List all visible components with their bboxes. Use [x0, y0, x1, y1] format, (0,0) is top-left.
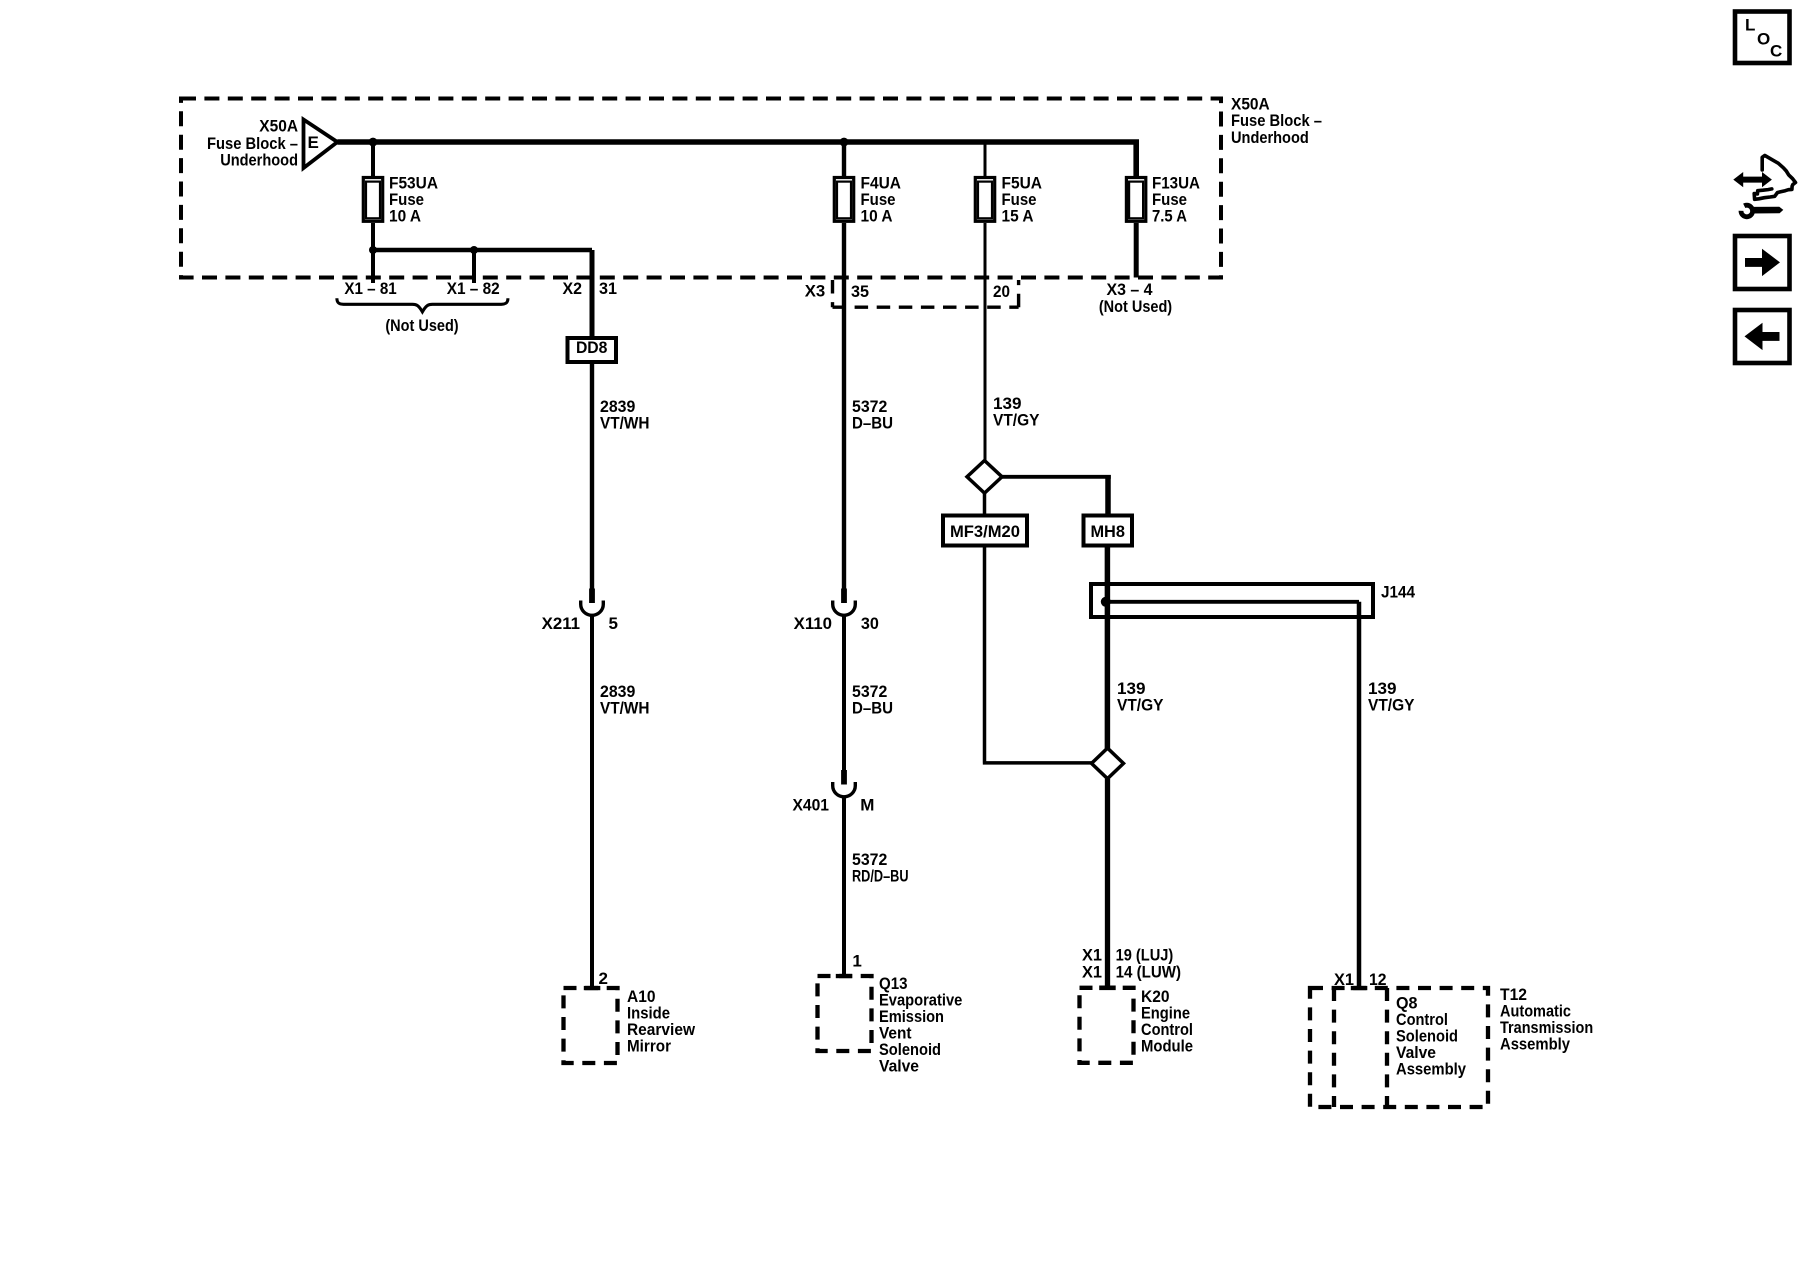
splice pack J144 [1091, 583, 1415, 618]
svg-text:Assembly: Assembly [1396, 1060, 1466, 1079]
svg-text:VT/WH: VT/WH [600, 414, 650, 433]
wire X110 to X401 [842, 615, 846, 770]
label X50A Fuse Block Underhood (at triangle) [207, 117, 298, 170]
wire MF3/M20 down and right to diamond 2 [983, 546, 1092, 763]
svg-text:Underhood: Underhood [1231, 128, 1309, 147]
wire stub pin X1-81 [371, 250, 375, 283]
J144 internal bus wire [1107, 600, 1360, 604]
diagnostic icon: wrench [1732, 197, 1784, 217]
fuse F53UA 10A [363, 173, 438, 225]
wire label 5372 D-BU (mid) [852, 682, 893, 718]
wire MH8 through J144 to diamond 2 [1105, 546, 1111, 749]
LOC hotspot box [1735, 12, 1790, 64]
svg-text:5: 5 [609, 614, 618, 633]
svg-text:7.5 A: 7.5 A [1152, 206, 1187, 225]
inline connector X110 pin 30 [794, 589, 879, 634]
terminal E triangle [304, 120, 338, 169]
terminal tick at A10 [584, 986, 601, 990]
pin labels X1 19 (LUJ) / X1 14 (LUW) [1082, 945, 1181, 981]
svg-text:10 A: 10 A [861, 206, 893, 225]
pin label X1 12 [1334, 970, 1387, 989]
component A10 Inside Rearview Mirror (dashed) [564, 987, 696, 1063]
label T12 Automatic Transmission Assembly [1500, 985, 1593, 1054]
svg-text:10 A: 10 A [389, 206, 421, 225]
wire fuse F4UA to X110 [842, 223, 846, 589]
svg-text:14 (LUW): 14 (LUW) [1116, 963, 1181, 982]
pin labels X3 35 20 [805, 281, 1010, 301]
splice DD8 [568, 338, 617, 362]
pin label X1-81 [344, 279, 396, 298]
wire label 139 VT/GY (left) [1117, 679, 1164, 715]
svg-text:VT/GY: VT/GY [993, 411, 1040, 430]
svg-text:Mirror: Mirror [627, 1037, 671, 1056]
svg-text:Underhood: Underhood [220, 151, 298, 170]
wire diamond to MH8 corner [1002, 475, 1111, 516]
svg-text:MF3/M20: MF3/M20 [950, 522, 1020, 541]
svg-text:L: L [1745, 16, 1755, 35]
brace (Not Used) [337, 298, 508, 335]
diagnostic icon: double arrow [1733, 172, 1772, 187]
svg-text:X1: X1 [1082, 945, 1102, 964]
wire diamond 2 to K20 [1105, 779, 1110, 988]
svg-text:D–BU: D–BU [852, 699, 893, 718]
wire X401 to Q13 [842, 797, 846, 976]
inline connector X401 pin M [793, 770, 875, 815]
wire bus to fuse F4UA [842, 142, 846, 176]
wire label 139 VT/GY [993, 394, 1040, 430]
splice diamond node 2 [1092, 748, 1124, 779]
bus wire from terminal E [337, 142, 1136, 176]
svg-text:RD/D–BU: RD/D–BU [852, 867, 909, 886]
label X50A Fuse Block Underhood (right of box) [1231, 95, 1322, 147]
wire DD8 to X211 [590, 362, 594, 589]
harness branch MH8 [1084, 516, 1133, 546]
svg-text:X211: X211 [542, 614, 580, 633]
fuse F13UA 7.5A [1126, 173, 1200, 225]
splice diamond node 1 [967, 461, 1002, 494]
svg-text:C: C [1770, 42, 1782, 61]
junction node X1-81 [369, 246, 377, 254]
wire fuse F5UA to splice diamond [984, 223, 987, 461]
wire label 5372 D-BU [852, 397, 893, 433]
svg-text:Assembly: Assembly [1500, 1035, 1570, 1054]
component Q8 inner dashed line [1385, 988, 1389, 1107]
svg-text:Module: Module [1141, 1037, 1193, 1056]
pin label X3-4 (Not Used) [1099, 280, 1172, 316]
wire J144 to T12 [1357, 602, 1362, 988]
pin label X2 31 [563, 279, 618, 298]
component K20 Engine Control Module (dashed) [1080, 987, 1194, 1063]
svg-text:E: E [308, 133, 319, 152]
svg-text:31: 31 [599, 279, 617, 298]
wire label 139 VT/GY (right) [1368, 679, 1415, 715]
svg-text:O: O [1757, 30, 1770, 49]
svg-text:VT/GY: VT/GY [1117, 696, 1164, 715]
fuse F4UA 10A [834, 173, 901, 225]
svg-text:DD8: DD8 [576, 338, 608, 357]
junction node at F53UA [369, 138, 378, 147]
svg-text:19 (LUJ): 19 (LUJ) [1116, 945, 1174, 964]
svg-text:X2: X2 [563, 279, 583, 298]
wire X2-31 to DD8 [590, 250, 595, 338]
diagnostic icon: sketched arrow outline [1754, 155, 1795, 199]
wire fuse F53UA to branch [371, 223, 375, 250]
svg-text:X50A: X50A [259, 117, 298, 136]
svg-text:M: M [860, 796, 874, 815]
svg-text:20: 20 [993, 282, 1010, 301]
svg-text:30: 30 [861, 614, 879, 633]
wire label 2839 VT/WH (lower) [600, 682, 650, 718]
pin label 1 [852, 952, 861, 971]
wire stub pin X1-82 [472, 250, 476, 283]
wire bus to fuse F5UA [984, 142, 987, 176]
svg-text:X110: X110 [794, 614, 832, 633]
fuse F5UA 15A [975, 173, 1042, 225]
inline connector X211 pin 5 [542, 589, 618, 634]
junction node X1-82 [470, 246, 478, 254]
component Q13 Evaporative Emission Vent Solenoid Valve (dashed) [818, 974, 963, 1076]
wire bus to fuse F53UA [371, 142, 375, 176]
svg-text:MH8: MH8 [1090, 522, 1125, 541]
wire fuse F13UA to X3-4 pin [1134, 223, 1139, 278]
connector X3 sub-box (dashed) [833, 280, 1019, 307]
svg-text:J144: J144 [1381, 583, 1415, 602]
svg-text:D–BU: D–BU [852, 414, 893, 433]
wire branch to X2 pin [371, 248, 592, 252]
svg-text:X1 – 82: X1 – 82 [447, 279, 500, 298]
terminal tick at Q13 [836, 974, 853, 978]
T12 inner connector dashed line [1332, 988, 1336, 1107]
svg-text:15 A: 15 A [1002, 206, 1034, 225]
svg-text:X401: X401 [793, 796, 830, 815]
pin label X1-82 [447, 279, 500, 298]
svg-text:VT/GY: VT/GY [1368, 696, 1415, 715]
junction node in J144 [1101, 597, 1111, 607]
assembly T12 outer dashed box [1310, 988, 1488, 1107]
wire diamond to MF3/M20 [983, 493, 987, 515]
svg-text:X1 – 81: X1 – 81 [344, 279, 396, 298]
terminal tick at K20 [1099, 986, 1116, 991]
wire X211 to A10 [590, 615, 594, 988]
fuse block X50A dashed outline [181, 99, 1221, 278]
svg-text:(Not Used): (Not Used) [385, 316, 458, 335]
svg-text:VT/WH: VT/WH [600, 699, 650, 718]
pin label 2 [599, 969, 608, 988]
wire label 2839 VT/WH [600, 397, 650, 433]
junction node at F4UA [840, 138, 849, 147]
svg-text:35: 35 [851, 282, 869, 301]
harness branch MF3/M20 [943, 516, 1027, 546]
svg-text:X1: X1 [1082, 963, 1102, 982]
svg-text:Valve: Valve [879, 1057, 919, 1076]
forward arrow box [1735, 236, 1790, 289]
svg-text:1: 1 [852, 952, 861, 971]
svg-text:2: 2 [599, 969, 608, 988]
terminal tick at T12 [1351, 986, 1368, 990]
back arrow box [1735, 310, 1790, 363]
wire label 5372 RD/D-BU [852, 850, 909, 886]
label Q8 Control Solenoid Valve Assembly [1396, 994, 1466, 1079]
svg-text:X3: X3 [805, 281, 826, 300]
svg-text:(Not Used): (Not Used) [1099, 297, 1172, 316]
